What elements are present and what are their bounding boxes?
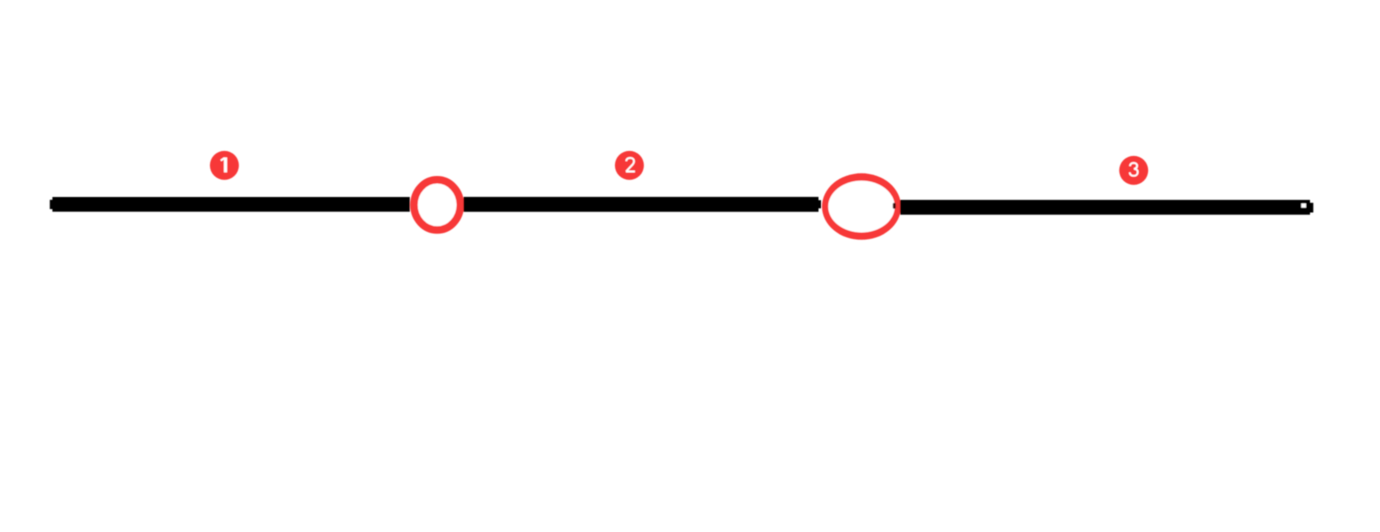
label badge 2 (wire segment 2) bbox=[615, 151, 644, 180]
right endpoint nub of wire segment 2 bbox=[818, 200, 821, 208]
node B (open ellipse on wire): outer red ellipse bbox=[822, 173, 901, 240]
label badge 1 (wire segment 1) bbox=[210, 151, 239, 180]
white square marker near right end of wire segment 3 bbox=[1301, 203, 1306, 207]
wire segment 1 (left end to node A) bbox=[52, 197, 409, 212]
node A (open circle on wire) bbox=[414, 180, 460, 230]
right endpoint nub of wire segment 3 bbox=[1310, 203, 1313, 213]
stray stroke start dot at node B right inner edge bbox=[893, 203, 896, 209]
wire segment 3 (node B to right end) bbox=[900, 200, 1310, 215]
left endpoint nub of wire segment 1 bbox=[50, 200, 53, 209]
wire segment 2 (node A to node B) bbox=[464, 197, 819, 212]
node B inner white ellipse bbox=[828, 181, 895, 233]
label badge 3 (wire segment 3) bbox=[1119, 156, 1148, 185]
